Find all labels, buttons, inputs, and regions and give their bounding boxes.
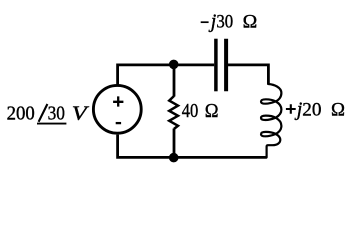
svg-text:Ω: Ω xyxy=(243,12,258,32)
label: source value 200 angle 30 V xyxy=(7,103,90,125)
capacitor C right plate xyxy=(224,39,228,92)
resistor R 40ohm zigzag xyxy=(169,96,178,129)
wire: top junction down to resistor top xyxy=(173,65,176,97)
label: capacitor -j30 ohm xyxy=(201,10,258,32)
inductor L coil with bottom stub xyxy=(261,84,281,157)
svg-text:30: 30 xyxy=(216,12,233,32)
voltage source plus sign xyxy=(113,96,123,106)
node A (top junction dot) xyxy=(169,60,179,70)
svg-text:200: 200 xyxy=(7,103,35,125)
wire: source bottom down and right along bottom rail xyxy=(118,135,267,158)
label: inductor +j20 ohm xyxy=(286,98,345,120)
capacitor C left plate xyxy=(214,39,218,92)
wire: capacitor right plate to inductor top stub xyxy=(228,65,269,85)
voltage source minus sign xyxy=(116,122,121,124)
svg-text:30: 30 xyxy=(48,103,65,125)
label: resistor 40 ohm xyxy=(182,100,219,122)
node B (bottom junction dot) xyxy=(169,153,179,163)
wire: source top up and right to capacitor left plate xyxy=(118,65,215,86)
svg-text:40: 40 xyxy=(182,100,199,122)
voltage source VS circle xyxy=(93,85,141,133)
svg-text:Ω: Ω xyxy=(331,100,345,120)
svg-text:20: 20 xyxy=(302,100,321,120)
svg-text:Ω: Ω xyxy=(205,100,219,122)
wire: resistor bottom to bottom junction xyxy=(173,129,176,158)
